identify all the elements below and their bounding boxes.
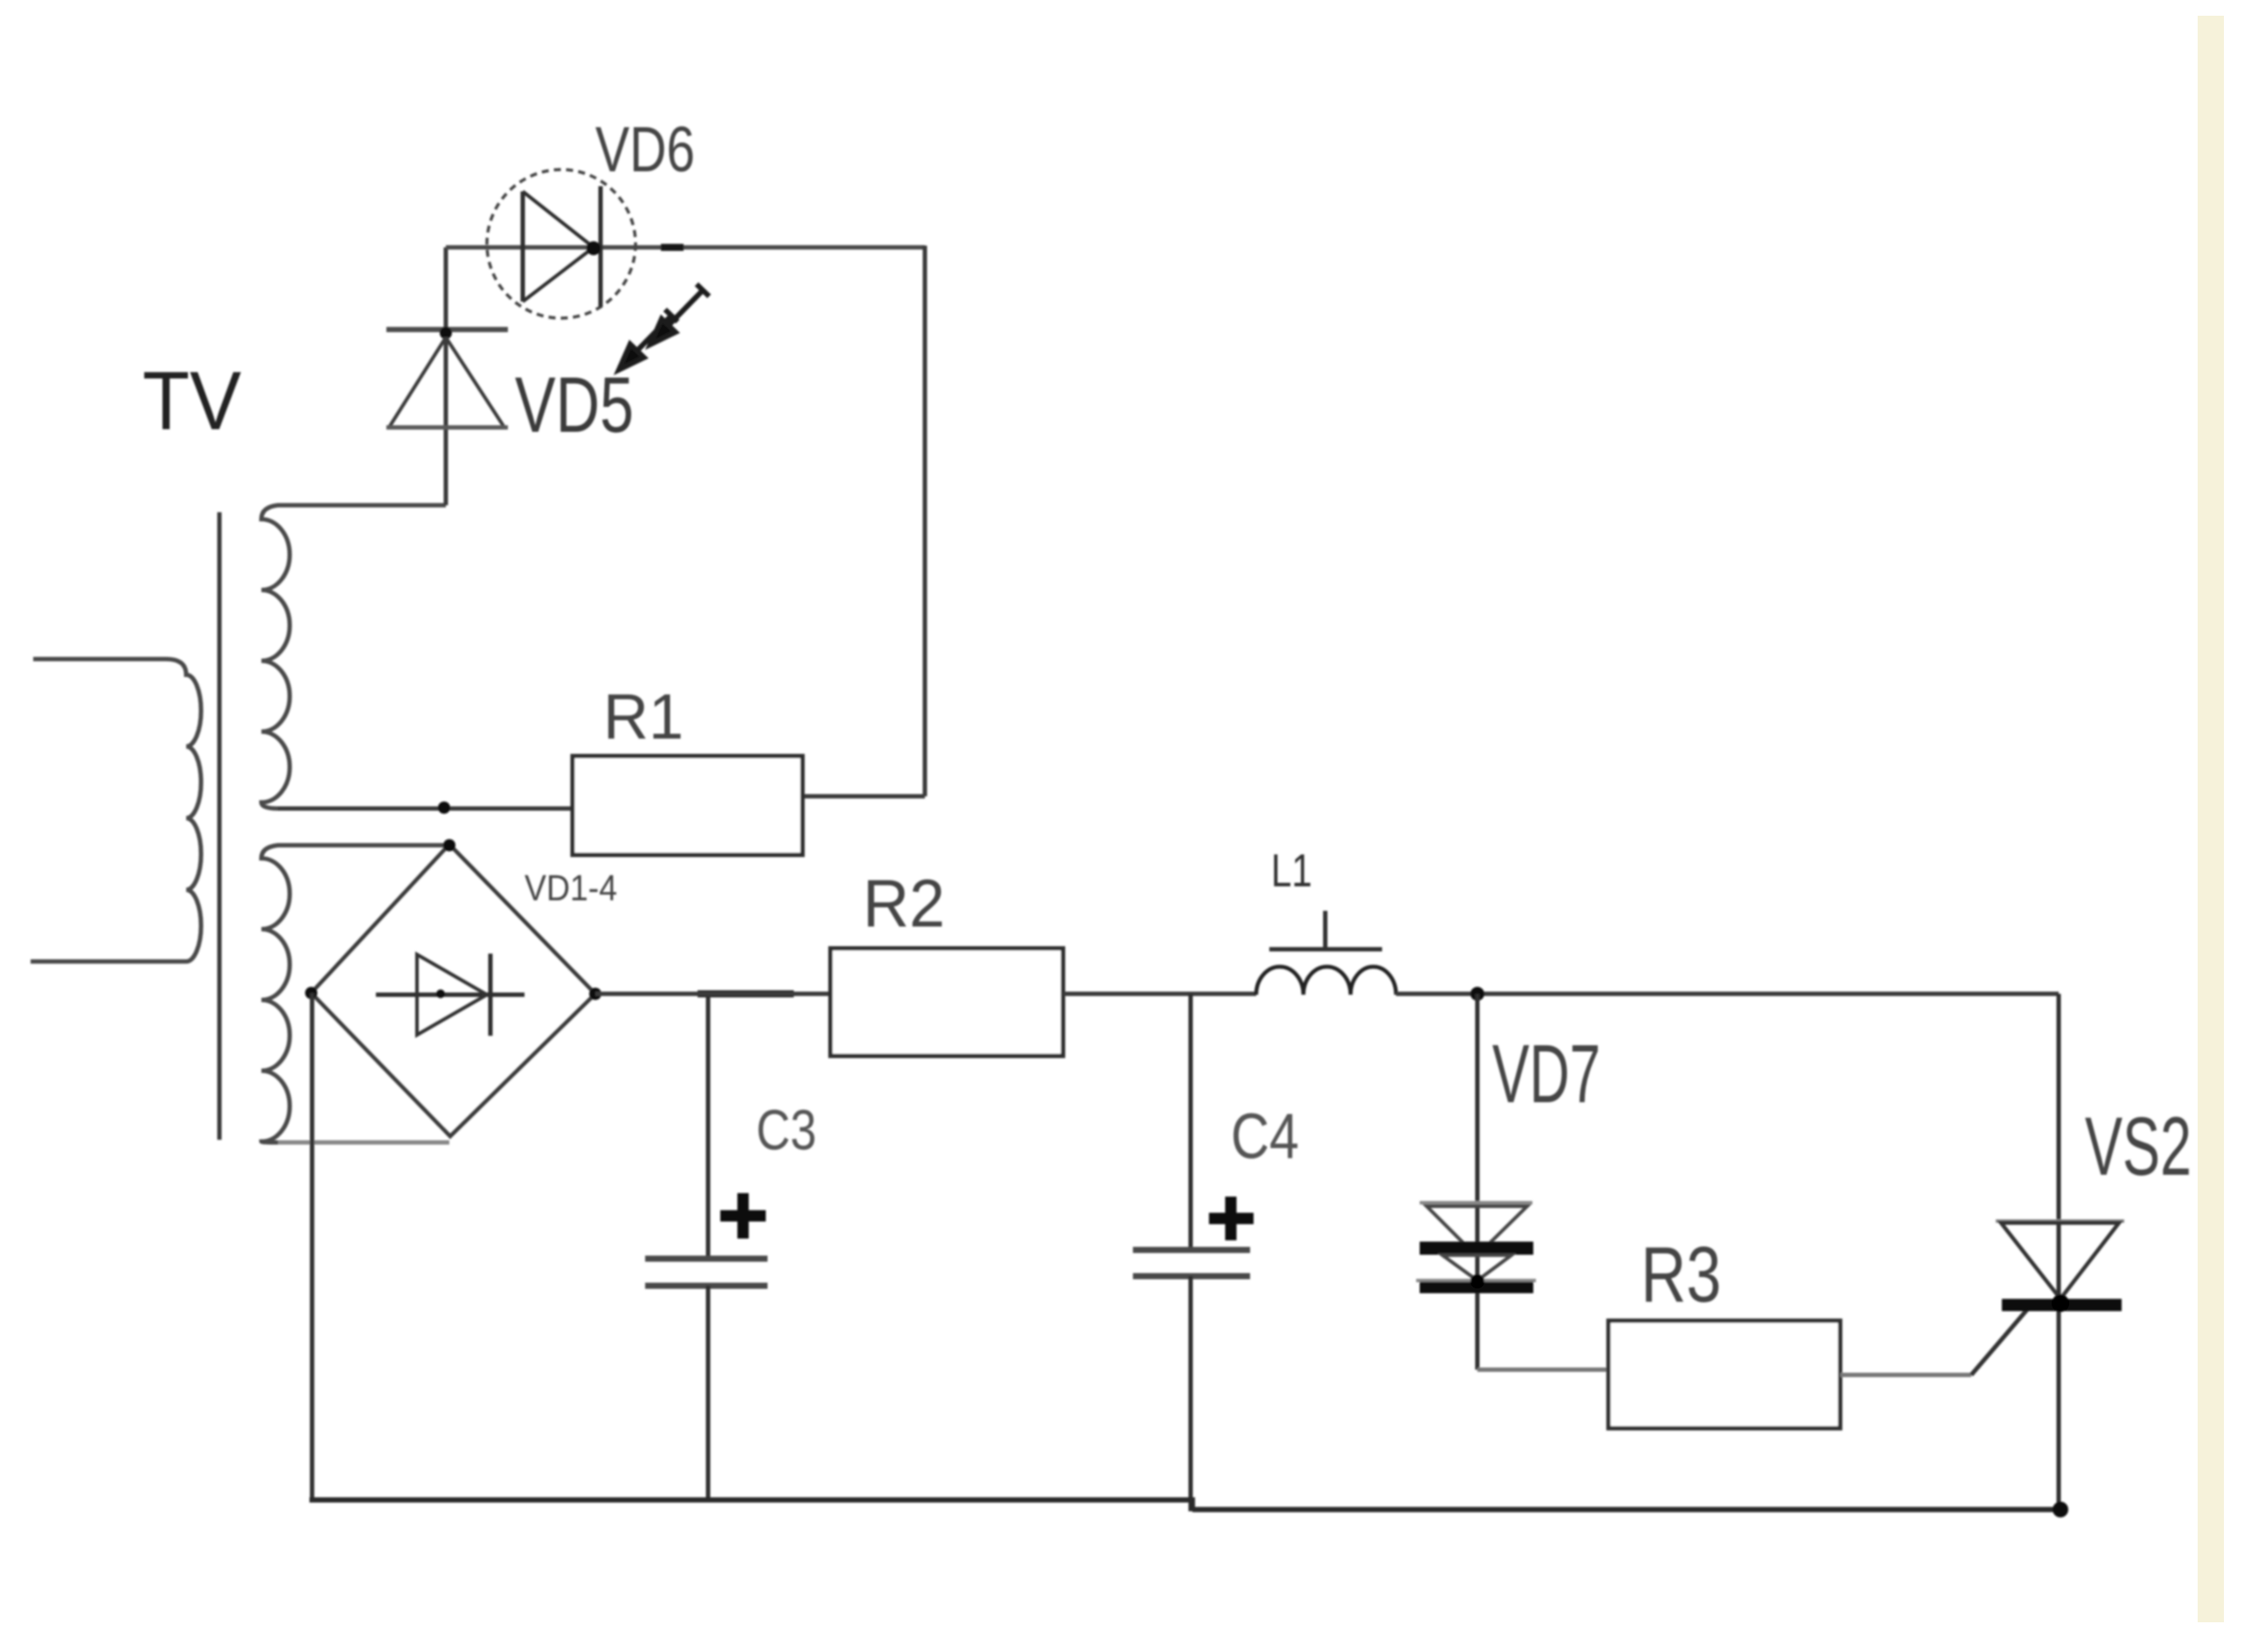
svg-text:VD6: VD6 [595,115,695,185]
svg-text:VD7: VD7 [1492,1028,1601,1121]
svg-text:VD5: VD5 [515,362,634,449]
svg-text:R1: R1 [603,682,684,753]
svg-text:TV: TV [142,355,241,448]
svg-text:L1: L1 [1271,845,1312,897]
svg-text:VD1-4: VD1-4 [525,867,617,908]
svg-text:C4: C4 [1231,1101,1299,1172]
svg-text:R3: R3 [1641,1232,1721,1319]
svg-text:VS2: VS2 [2085,1100,2192,1193]
svg-text:C3: C3 [756,1098,816,1162]
svg-text:R2: R2 [863,866,945,941]
